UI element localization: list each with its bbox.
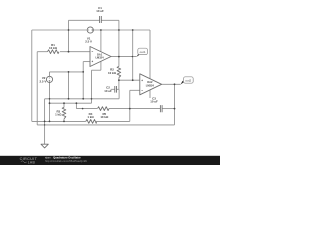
node dot OA1 out x118.9	[118, 56, 120, 58]
svg-text:10 kΩ: 10 kΩ	[100, 115, 109, 119]
node dot wire-A V2 crossing	[49, 98, 51, 100]
svg-text:LM324: LM324	[95, 55, 104, 59]
wire wire-A left corner down / ground stem upper	[44, 99, 46, 122]
wire OA2 out drop	[174, 84, 176, 125]
wire OA1 VEE horizontal	[92, 69, 101, 71]
capacitor C1 plates	[100, 16, 102, 23]
wire OA2 VEE stub	[149, 90, 151, 98]
wire C2 right stub	[117, 88, 119, 90]
wire wire-A right corner up to C2	[118, 89, 120, 99]
node dot V2 top bias tee	[68, 71, 70, 73]
svg-text:out1: out1	[140, 50, 146, 54]
node dot OA2 plus rail-drop	[132, 79, 134, 81]
component strokes	[41, 16, 162, 148]
OA1 minus glyph	[92, 51, 94, 53]
node dot R3 row jog	[76, 102, 78, 104]
node dot rail/C1-left crossing	[68, 29, 70, 31]
flag out1	[137, 48, 148, 57]
wire OA1 VCC stub	[100, 30, 102, 51]
resistor R3	[62, 107, 66, 119]
wire R3 top row	[50, 102, 92, 104]
wire V2 top stub	[49, 72, 51, 76]
wire OA1 plus vertical	[82, 62, 84, 99]
svg-text:10 uF: 10 uF	[150, 99, 158, 103]
wire feedback rail OA2out to R1	[37, 124, 174, 126]
wire bias wire-A horizontal	[45, 98, 120, 100]
svg-text:out2: out2	[185, 79, 191, 83]
wire R1 left drop to feedback rail	[36, 52, 38, 125]
node dot wire-A x83.2	[82, 98, 84, 100]
wire left drop V1- to ground rail	[31, 30, 33, 121]
wire R3 bottom stub	[63, 119, 65, 122]
junction dots	[44, 29, 176, 126]
wire V2 top bias horizontal	[50, 71, 84, 73]
svg-text:10 uF: 10 uF	[104, 89, 112, 93]
node dot R2 bottom	[118, 79, 120, 81]
svg-text:10 uF: 10 uF	[96, 9, 104, 13]
wire OA1 VEE drop corner	[91, 70, 93, 103]
node dot R1 row C1 branch	[68, 51, 70, 53]
node dot feedback rail stem crossing	[44, 124, 45, 125]
svg-text:1 kΩ: 1 kΩ	[87, 115, 94, 119]
logo squiggle	[21, 161, 27, 163]
wire C3 right to OA2 out vertical	[162, 108, 174, 110]
wire ground stem	[44, 121, 46, 144]
source polarity glyphs	[49, 29, 143, 90]
wire R2 bottom stub	[118, 78, 120, 81]
wire C1 feedback left vertical	[68, 20, 70, 51]
wire C1 top left horizontal	[69, 19, 100, 21]
OA2 minus glyph	[141, 89, 143, 91]
svg-text:10 kΩ: 10 kΩ	[108, 71, 117, 75]
wire ground rail	[32, 120, 86, 122]
wire C2 right vertical from R2 node	[118, 80, 120, 89]
voltage source V1 circle	[87, 27, 93, 33]
V2 minus plus	[49, 77, 50, 79]
node dot rail OA1 VCC	[100, 29, 102, 31]
wire jog down to R5 row	[75, 103, 77, 108]
component labels	[40, 6, 158, 119]
svg-text:2.5 V: 2.5 V	[40, 79, 47, 83]
wire OA2 VCC drop	[149, 30, 151, 79]
node dot ground rail stem	[44, 121, 46, 123]
flag out2	[181, 77, 194, 85]
node dot R5 row OA2 minus tap	[129, 108, 131, 110]
resistor R5	[98, 107, 110, 111]
wire rail 2.5V left segment	[32, 29, 87, 31]
wire R1 row input to OA1 minus	[37, 51, 47, 53]
wire OA1 VEE stub	[100, 61, 102, 70]
node dot ground rail x64	[63, 121, 65, 123]
wire R3 top stub	[63, 103, 65, 107]
wire OA1 output	[111, 56, 137, 58]
wire V2 bottom drop	[49, 83, 51, 104]
wire R5 row left	[76, 108, 97, 110]
wire R5 to C3	[109, 108, 160, 110]
wire C1 top right horizontal	[102, 19, 119, 21]
wire R2 top stub	[118, 57, 120, 67]
node dot bias tee x83.2	[82, 71, 84, 73]
node dot OA1 out x132.7 crossing	[132, 56, 133, 57]
footer bar	[0, 156, 220, 165]
OA2 plus glyph	[141, 80, 143, 82]
V1 minus plus	[88, 29, 89, 31]
svg-text:LM324: LM324	[146, 83, 155, 87]
wire rail drop to OA2 plus	[132, 30, 134, 80]
wire C2 left stub	[111, 88, 115, 90]
capacitor C2 plates	[115, 86, 117, 93]
svg-text:LAB: LAB	[28, 160, 36, 164]
svg-text:10 kΩ: 10 kΩ	[49, 46, 58, 50]
node dot rail x132.7	[132, 29, 134, 31]
op-amp OA2 triangle	[140, 74, 162, 95]
wire C1 right vertical to OA1 output	[118, 20, 120, 56]
node dot C3 right OA2 out	[174, 108, 176, 110]
resistor R1	[48, 50, 60, 54]
wire OA2 minus row	[130, 89, 140, 91]
node dot wire-A x68.5	[68, 98, 70, 100]
ground symbol triangle	[41, 144, 48, 148]
capacitor C3 plates	[160, 105, 162, 112]
node dot ground rail x53.3	[49, 121, 51, 123]
node dot wire-A x91.5 crossing	[91, 98, 93, 100]
op-amp OA1 triangle	[90, 47, 111, 67]
voltage source V2 circle	[46, 76, 52, 82]
svg-text:2.5 V: 2.5 V	[85, 40, 92, 44]
node dot OA2 out	[174, 83, 176, 85]
wire rail 2.5V right segment	[93, 29, 150, 31]
svg-text:http://circuitlab.com/c55ab5sa: http://circuitlab.com/c55ab5sa2rjm8c	[45, 159, 88, 163]
resistor R4	[86, 120, 97, 124]
wire OA2 plus row	[119, 79, 140, 81]
wire OA1 plus horizontal	[83, 61, 90, 63]
wire bias drop x68.5	[68, 72, 70, 99]
node dot R3 top	[63, 102, 65, 104]
OA1 plus glyph	[92, 61, 94, 63]
wire OA2 output	[162, 83, 181, 85]
svg-text:1 kΩ: 1 kΩ	[55, 113, 62, 117]
node dot R5 row left	[82, 108, 84, 110]
resistor R2	[117, 67, 121, 78]
wire OA2 minus drop	[129, 90, 131, 121]
node dot rail x118.9 crossing	[118, 29, 120, 31]
